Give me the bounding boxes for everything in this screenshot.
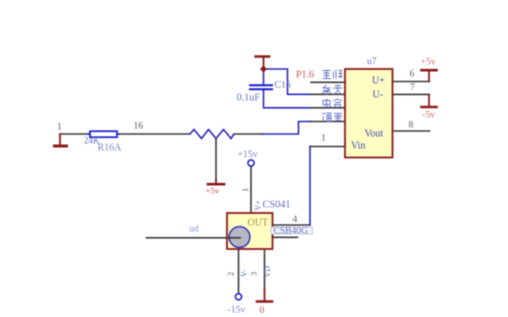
svg-text:VD: VD [263,266,272,278]
svg-text:u7: u7 [367,57,377,67]
svg-text:P1.6: P1.6 [296,70,314,81]
svg-text:8: 8 [409,121,414,131]
svg-text:ud: ud [190,224,200,234]
svg-text:Vin: Vin [351,141,365,152]
svg-text:3: 3 [249,272,259,276]
svg-text:1: 1 [321,134,326,144]
svg-text:-15v: -15v [228,305,246,316]
svg-text:4: 4 [293,215,298,225]
svg-text:U+: U+ [372,76,385,87]
svg-text:1: 1 [57,123,62,133]
svg-text:U-: U- [373,90,384,101]
svg-text:C16: C16 [275,80,291,91]
svg-text:6: 6 [410,70,415,80]
svg-text:+5v: +5v [421,57,436,68]
svg-text:OUT: OUT [248,218,269,229]
svg-text:+15v: +15v [238,149,258,160]
svg-text:0.1uF: 0.1uF [237,93,261,104]
svg-text:16: 16 [134,122,144,132]
svg-text:-5v: -5v [422,110,435,121]
svg-text:V-: V- [240,269,249,277]
svg-text:R16A: R16A [98,143,123,154]
svg-text:7: 7 [410,83,415,93]
svg-text:1: 1 [240,188,250,192]
svg-text:CS041: CS041 [263,200,291,211]
svg-text:2: 2 [226,272,236,276]
svg-text:+5v: +5v [206,186,220,196]
svg-text:Vout: Vout [365,129,384,140]
svg-text:0: 0 [260,306,265,316]
svg-text:V+: V+ [254,200,263,211]
svg-text:CSB40G: CSB40G [274,227,308,237]
